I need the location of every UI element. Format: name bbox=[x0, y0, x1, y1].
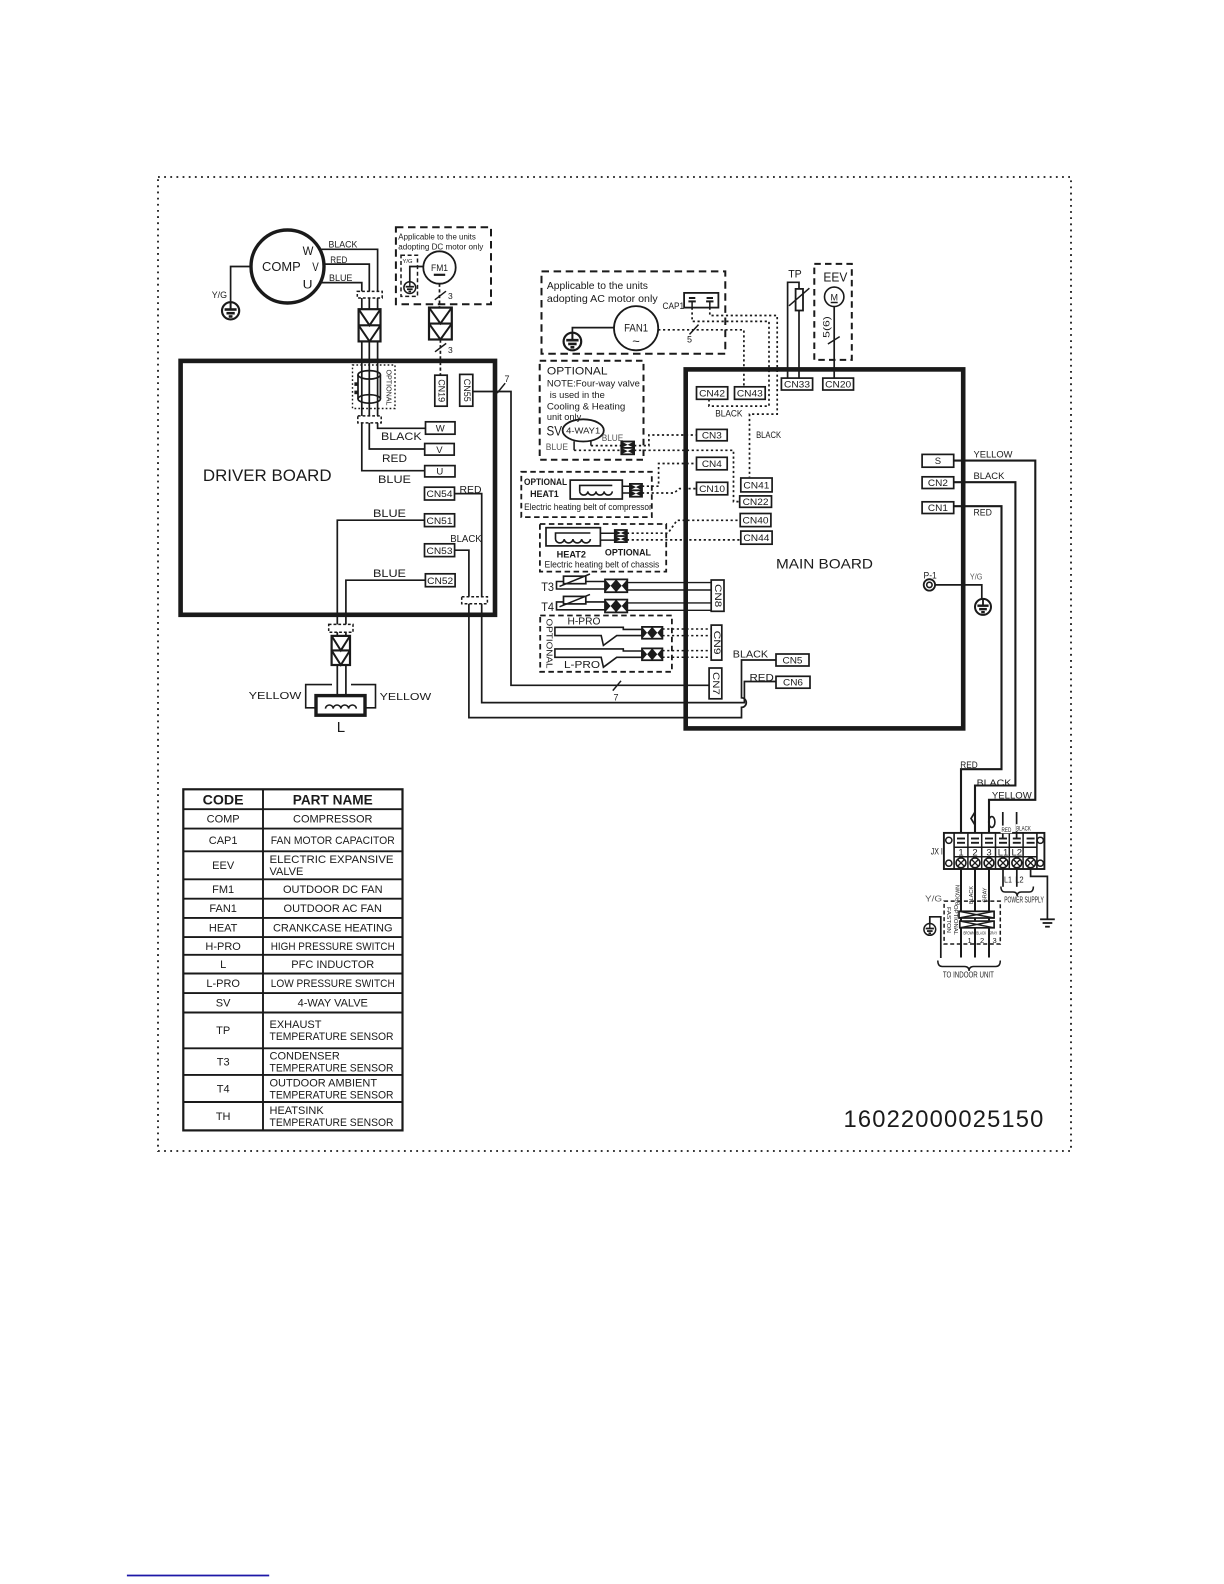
wire HEAT1 to CN4 bbox=[642, 464, 697, 487]
connector CN53 bbox=[425, 544, 455, 557]
svg-text:Applicable to the units: Applicable to the units bbox=[398, 233, 476, 242]
label JX I bbox=[931, 847, 943, 858]
svg-text:Y/G: Y/G bbox=[970, 572, 983, 582]
ground (FM1) bbox=[404, 282, 416, 294]
svg-text:TEMPERATURE SENSOR: TEMPERATURE SENSOR bbox=[270, 1062, 394, 1074]
svg-text:T3: T3 bbox=[541, 582, 554, 594]
svg-text:L1: L1 bbox=[1004, 874, 1012, 884]
svg-text:BLUE: BLUE bbox=[373, 508, 406, 520]
connector CN4 bbox=[697, 457, 728, 470]
svg-text:RED: RED bbox=[750, 673, 774, 684]
svg-text:ELECTRIC EXPANSIVE: ELECTRIC EXPANSIVE bbox=[270, 854, 394, 866]
svg-text:L1: L1 bbox=[998, 848, 1009, 859]
brace POWER SUPPLY bbox=[1001, 887, 1034, 897]
svg-text:SV: SV bbox=[547, 424, 563, 439]
fan motor capacitor CAP1 bbox=[684, 293, 718, 308]
wires L-PRO to CN9 bbox=[662, 651, 711, 658]
svg-text:BLUE: BLUE bbox=[546, 442, 568, 453]
svg-text:Y/G: Y/G bbox=[403, 259, 413, 265]
svg-text:OPTIONAL: OPTIONAL bbox=[384, 370, 391, 406]
ferrite bead on inductor leads bbox=[329, 624, 353, 632]
label RED bbox=[330, 255, 347, 266]
label P-1 bbox=[924, 571, 937, 582]
wire BLUE CN51 to inductor bbox=[337, 520, 424, 696]
label BLACK bbox=[381, 431, 422, 443]
loop on yellow wire bbox=[989, 817, 995, 828]
wire BROWN terminal 1 to indoor unit bbox=[960, 869, 962, 958]
fan motor FAN1 bbox=[614, 306, 658, 350]
svg-text:Applicable to the units: Applicable to the units bbox=[547, 281, 648, 292]
driver board bbox=[181, 361, 495, 615]
svg-text:L: L bbox=[337, 719, 345, 736]
wire EEV to CN20 bbox=[833, 307, 835, 379]
connector CN8 bbox=[711, 580, 724, 611]
wire (5 conductors) FAN1 to CN43 bbox=[658, 330, 744, 387]
svg-text:L: L bbox=[220, 959, 226, 971]
svg-text:CN33: CN33 bbox=[784, 379, 810, 390]
svg-text:3: 3 bbox=[448, 291, 453, 301]
svg-text:EXHAUST: EXHAUST bbox=[270, 1019, 322, 1031]
svg-text:CN41: CN41 bbox=[743, 480, 769, 491]
svg-text:CN53: CN53 bbox=[427, 546, 453, 557]
connector CN52 bbox=[425, 574, 455, 587]
svg-text:CN40: CN40 bbox=[743, 515, 769, 526]
ferrite bead over compressor leads bbox=[357, 291, 382, 298]
label MAIN BOARD bbox=[776, 556, 873, 572]
label L2 bbox=[1015, 874, 1024, 884]
svg-text:BLUE: BLUE bbox=[329, 273, 352, 284]
svg-text:OPTIONAL: OPTIONAL bbox=[547, 366, 608, 378]
svg-text:CN43: CN43 bbox=[737, 388, 763, 399]
svg-text:CN9: CN9 bbox=[712, 631, 722, 655]
connector CN2 bbox=[922, 477, 954, 489]
svg-text:CN42: CN42 bbox=[699, 388, 725, 399]
svg-text:PFC INDUCTOR: PFC INDUCTOR bbox=[291, 959, 374, 971]
node P-1 bbox=[924, 579, 935, 590]
ferrite bead below choke bbox=[358, 416, 381, 423]
note box optional: pressure switches bbox=[540, 616, 672, 672]
wire RED from COMP V to terminal V bbox=[324, 264, 424, 449]
svg-text:CN20: CN20 bbox=[825, 379, 851, 390]
label BLACK bbox=[974, 471, 1006, 482]
terminal W bbox=[426, 422, 456, 435]
svg-text:CN51: CN51 bbox=[427, 516, 453, 527]
svg-text:BLACK: BLACK bbox=[756, 430, 782, 441]
note box HEAT2 optional: electric heating belt of chassis bbox=[540, 524, 666, 572]
svg-text:COMP: COMP bbox=[262, 259, 301, 274]
connector (L-PRO leads) bbox=[642, 648, 662, 660]
note box: applicable to units adopting AC motor only bbox=[542, 271, 726, 353]
svg-text:TEMPERATURE SENSOR: TEMPERATURE SENSOR bbox=[270, 1117, 394, 1129]
label YELLOW bbox=[992, 791, 1032, 801]
svg-text:L-PRO: L-PRO bbox=[206, 978, 240, 990]
svg-text:BLACK: BLACK bbox=[450, 534, 482, 545]
connector CN54 bbox=[425, 487, 455, 500]
wire BLACK from COMP W to terminal W bbox=[320, 249, 425, 428]
svg-text:OPTIONAL: OPTIONAL bbox=[524, 477, 567, 488]
svg-text:TEMPERATURE SENSOR: TEMPERATURE SENSOR bbox=[270, 1089, 394, 1101]
connector CN10 bbox=[697, 482, 728, 495]
svg-text:CN6: CN6 bbox=[783, 678, 803, 689]
wires H-PRO to CN9 bbox=[662, 629, 711, 636]
svg-text:BLACK: BLACK bbox=[977, 778, 1012, 788]
svg-text:GRAY: GRAY bbox=[982, 887, 988, 902]
svg-text:1: 1 bbox=[958, 848, 963, 859]
svg-text:BLACK: BLACK bbox=[976, 931, 986, 936]
svg-text:RED: RED bbox=[974, 508, 993, 519]
labels BROWN BLACK GRAY bbox=[964, 931, 998, 936]
svg-text:SV: SV bbox=[216, 998, 231, 1010]
svg-text:CN22: CN22 bbox=[743, 497, 769, 508]
wire CAP1 to CN41 bbox=[710, 308, 777, 478]
label BROWN bbox=[955, 885, 961, 905]
label L bbox=[337, 719, 345, 736]
main board bbox=[686, 369, 964, 728]
svg-text:TH: TH bbox=[216, 1111, 231, 1123]
label CAP1 bbox=[663, 301, 685, 312]
label BLACK bbox=[329, 240, 358, 251]
svg-text:NOTE:Four-way valve: NOTE:Four-way valve bbox=[547, 378, 640, 389]
svg-text:3: 3 bbox=[986, 848, 991, 859]
svg-text:BLACK: BLACK bbox=[329, 240, 358, 251]
label RED bbox=[460, 485, 482, 496]
terminal U bbox=[425, 466, 455, 478]
svg-text:YELLOW: YELLOW bbox=[380, 692, 432, 703]
svg-text:U: U bbox=[436, 467, 443, 478]
svg-text:7: 7 bbox=[505, 374, 510, 384]
ground (indoor unit earth) bbox=[924, 924, 936, 936]
label BLACK bbox=[969, 886, 975, 904]
label BLUE bbox=[329, 273, 352, 284]
4-way valve coil 4-WAY1 bbox=[563, 419, 604, 450]
svg-text:BLACK: BLACK bbox=[1016, 825, 1031, 832]
connector CN42 bbox=[697, 387, 728, 400]
wire RED CN54 to CN6 bbox=[455, 494, 777, 703]
svg-text:3: 3 bbox=[448, 345, 453, 355]
svg-text:RED: RED bbox=[1002, 827, 1012, 834]
label RED bbox=[974, 508, 993, 519]
wire HEAT2 to CN44 bbox=[627, 539, 741, 541]
label EEV bbox=[823, 271, 848, 285]
label POWER SUPPLY bbox=[1004, 895, 1044, 904]
svg-text:LOW PRESSURE SWITCH: LOW PRESSURE SWITCH bbox=[271, 978, 395, 990]
label BLUE bbox=[373, 508, 406, 520]
svg-text:PART NAME: PART NAME bbox=[293, 792, 373, 807]
label T3 bbox=[541, 582, 554, 594]
connector CN40 bbox=[740, 514, 771, 527]
svg-text:BLUE: BLUE bbox=[373, 568, 406, 580]
svg-text:T4: T4 bbox=[541, 602, 554, 614]
svg-text:CN19: CN19 bbox=[437, 379, 447, 402]
label BLACK bbox=[733, 649, 769, 660]
svg-text:T3: T3 bbox=[217, 1056, 230, 1068]
svg-text:4-WAY1: 4-WAY1 bbox=[566, 426, 600, 436]
label 7 with slash bbox=[497, 374, 509, 393]
svg-text:L2: L2 bbox=[1015, 874, 1024, 884]
ground (power supply) bbox=[1040, 919, 1055, 926]
connector CN5 bbox=[776, 654, 809, 666]
svg-text:CN7: CN7 bbox=[711, 672, 721, 695]
wire BLACK terminal 2 to indoor unit bbox=[974, 869, 976, 958]
connector CN9 bbox=[711, 625, 722, 660]
svg-text:VALVE: VALVE bbox=[270, 866, 304, 878]
label YELLOW bbox=[380, 692, 432, 703]
wire L1 bbox=[1002, 869, 1004, 887]
label YELLOW bbox=[249, 691, 302, 702]
connector CN51 bbox=[425, 514, 455, 527]
label 3 with slash bbox=[435, 291, 453, 301]
svg-text:EEV: EEV bbox=[212, 860, 235, 872]
svg-text:is used in the: is used in the bbox=[550, 390, 605, 401]
wire BLUE SV to CN3 bbox=[591, 435, 697, 446]
jog on black wire bbox=[971, 812, 975, 825]
svg-text:CODE: CODE bbox=[203, 792, 244, 807]
connector CN19 bbox=[435, 375, 447, 406]
svg-text:5(6): 5(6) bbox=[822, 316, 832, 338]
legend table bbox=[183, 789, 402, 1130]
connector (H-PRO leads) bbox=[642, 627, 662, 639]
connector CN6 bbox=[776, 676, 810, 688]
svg-text:HEAT: HEAT bbox=[209, 922, 238, 934]
svg-text:CN10: CN10 bbox=[699, 484, 725, 495]
PFC choke (optional, dotted) bbox=[353, 365, 396, 409]
connector CN55 bbox=[460, 374, 473, 406]
connector (HEAT2 leads) bbox=[615, 530, 627, 542]
wire BLUE SV to CN22 bbox=[574, 450, 740, 501]
svg-text:~: ~ bbox=[632, 333, 640, 348]
stub L2 with label BLACK bbox=[1016, 812, 1032, 839]
wire (3 conductors) connector to CN19 bbox=[439, 340, 441, 376]
wire (3 conductors) FM1 to connector bbox=[439, 284, 441, 308]
wire Y/G to indoor unit bbox=[930, 917, 941, 958]
label Y/G bbox=[925, 894, 942, 904]
label Y/G bbox=[212, 290, 227, 301]
label 5 with slash bbox=[687, 325, 699, 345]
svg-text:EEV: EEV bbox=[823, 271, 848, 285]
label BLUE bbox=[373, 568, 406, 580]
compressor COMP bbox=[251, 230, 324, 303]
high pressure switch H-PRO bbox=[555, 627, 642, 645]
label DRIVER BOARD bbox=[203, 466, 332, 485]
svg-text:POWER SUPPLY: POWER SUPPLY bbox=[1004, 895, 1044, 904]
svg-text:CONDENSER: CONDENSER bbox=[270, 1050, 340, 1062]
svg-text:CN8: CN8 bbox=[713, 584, 723, 607]
svg-text:M: M bbox=[830, 292, 838, 302]
note box: applicable to units adopting DC motor only bbox=[396, 227, 491, 304]
svg-text:3: 3 bbox=[993, 936, 997, 945]
connector CN3 bbox=[697, 429, 728, 441]
svg-text:BROWN: BROWN bbox=[955, 885, 961, 905]
svg-text:V: V bbox=[436, 445, 443, 456]
svg-text:TP: TP bbox=[216, 1025, 230, 1037]
wire (7 conductors) CN55 to CN7 bbox=[473, 392, 709, 686]
faston connector bar 2 bbox=[960, 921, 994, 928]
label H-PRO bbox=[568, 617, 601, 628]
wire BLUE from COMP U to terminal U bbox=[321, 283, 425, 471]
connector CN33 bbox=[781, 378, 812, 390]
connector CN43 bbox=[735, 387, 766, 400]
crankcase heater HEAT1 bbox=[570, 480, 630, 499]
label L-PRO bbox=[564, 660, 600, 671]
svg-text:FAN MOTOR CAPACITOR: FAN MOTOR CAPACITOR bbox=[271, 835, 395, 847]
wires T3 to CN8 bbox=[627, 583, 711, 590]
svg-text:FAN1: FAN1 bbox=[209, 903, 237, 915]
svg-text:HIGH PRESSURE SWITCH: HIGH PRESSURE SWITCH bbox=[271, 941, 395, 953]
svg-text:CAP1: CAP1 bbox=[663, 301, 685, 312]
svg-text:2: 2 bbox=[972, 848, 977, 859]
wire CAP1 to CN42 bbox=[692, 308, 769, 407]
label RED bbox=[382, 453, 407, 465]
svg-text:BLACK: BLACK bbox=[715, 408, 743, 419]
connector CN44 bbox=[741, 531, 772, 544]
slash on EEV wire bbox=[828, 337, 840, 344]
connector CN22 bbox=[740, 496, 772, 508]
svg-text:Cooling & Heating: Cooling & Heating bbox=[547, 401, 625, 412]
chassis heater HEAT2 bbox=[546, 528, 615, 546]
svg-text:W: W bbox=[436, 424, 445, 435]
svg-text:Y/G: Y/G bbox=[925, 894, 942, 904]
svg-text:U: U bbox=[303, 277, 313, 291]
svg-text:Y/G: Y/G bbox=[212, 290, 227, 301]
wires T4 to CN8 bbox=[627, 603, 711, 610]
svg-text:RED: RED bbox=[382, 453, 407, 465]
svg-text:YELLOW: YELLOW bbox=[992, 791, 1032, 801]
label BLACK bbox=[977, 778, 1012, 788]
faston connector bar 1 bbox=[959, 911, 994, 918]
svg-text:CN4: CN4 bbox=[702, 459, 722, 470]
label BLACK bbox=[715, 408, 743, 419]
connector (T3 leads) bbox=[605, 579, 627, 592]
svg-text:adopting DC motor only: adopting DC motor only bbox=[398, 243, 483, 252]
svg-text:YELLOW: YELLOW bbox=[249, 691, 302, 702]
svg-text:2: 2 bbox=[980, 936, 984, 945]
wire BLUE CN52 to inductor bbox=[346, 580, 426, 696]
svg-text:TP: TP bbox=[788, 269, 802, 281]
svg-text:MAIN BOARD: MAIN BOARD bbox=[776, 556, 873, 572]
svg-text:COMP: COMP bbox=[207, 814, 240, 826]
svg-text:CN1: CN1 bbox=[928, 503, 948, 514]
wire BLACK CN53 to CN5 bbox=[455, 550, 776, 717]
connector S bbox=[922, 454, 954, 467]
label 5(6) bbox=[822, 316, 832, 338]
connector (HEAT1 leads) bbox=[630, 484, 642, 497]
svg-text:RED: RED bbox=[460, 485, 482, 496]
svg-text:TEMPERATURE SENSOR: TEMPERATURE SENSOR bbox=[270, 1031, 394, 1043]
svg-text:adopting AC motor only: adopting AC motor only bbox=[547, 294, 658, 305]
connector (4-way valve leads) bbox=[621, 442, 634, 455]
svg-text:HEATSINK: HEATSINK bbox=[270, 1105, 325, 1117]
svg-text:L2: L2 bbox=[1012, 848, 1023, 859]
wire BLACK CN2 to terminal 2 bbox=[954, 482, 1016, 838]
note box: faston optional bbox=[944, 901, 1000, 944]
low pressure switch L-PRO bbox=[555, 649, 642, 667]
wire Y/G from COMP to ground bbox=[231, 267, 251, 303]
svg-text:OUTDOOR AMBIENT: OUTDOOR AMBIENT bbox=[270, 1077, 378, 1089]
brace TO INDOOR UNIT bbox=[938, 961, 1001, 972]
svg-text:CN54: CN54 bbox=[427, 489, 453, 500]
wire YELLOW S to terminal 3 bbox=[954, 461, 1036, 839]
label BLUE bbox=[378, 474, 411, 486]
fan motor FM1 bbox=[423, 251, 455, 283]
label BLUE bbox=[546, 442, 568, 453]
svg-text:FASTON: FASTON bbox=[945, 907, 951, 933]
wire Y/G P-1 to ground bbox=[935, 585, 982, 599]
svg-text:OUTDOOR AC FAN: OUTDOOR AC FAN bbox=[284, 903, 382, 915]
svg-text:RED: RED bbox=[330, 255, 347, 266]
exhaust temperature sensor TP bbox=[788, 282, 810, 378]
ground (P-1) bbox=[975, 599, 991, 615]
wire L2 bbox=[1016, 869, 1018, 887]
ferrite bead on CN53/CN54 leads bbox=[462, 597, 488, 604]
svg-text:CN5: CN5 bbox=[783, 655, 803, 666]
label TO INDOOR UNIT bbox=[943, 970, 994, 980]
svg-text:H-PRO: H-PRO bbox=[205, 941, 241, 953]
svg-text:CN52: CN52 bbox=[427, 576, 453, 587]
svg-text:JX I: JX I bbox=[931, 847, 943, 858]
connector CN20 bbox=[823, 378, 854, 390]
label BLUE bbox=[602, 433, 624, 444]
svg-text:DRIVER BOARD: DRIVER BOARD bbox=[203, 466, 332, 485]
svg-text:Electric heating belt of chass: Electric heating belt of chassis bbox=[545, 560, 660, 571]
connector CN7 bbox=[709, 668, 722, 699]
outdoor ambient temperature sensor T4 bbox=[557, 594, 606, 609]
connector CN41 bbox=[741, 478, 772, 492]
electric expansive valve EEV (dashed box) bbox=[814, 264, 852, 360]
svg-text:Electric heating belt of compr: Electric heating belt of compressor bbox=[524, 502, 652, 513]
label SV bbox=[547, 424, 563, 439]
label Y/G bbox=[403, 259, 413, 265]
svg-text:T4: T4 bbox=[217, 1083, 230, 1095]
svg-text:V: V bbox=[312, 260, 319, 274]
svg-text:BLUE: BLUE bbox=[378, 474, 411, 486]
svg-text:5: 5 bbox=[687, 334, 692, 344]
terminal block JXI bbox=[944, 833, 1045, 869]
footer rule bbox=[127, 1575, 269, 1577]
label RED bbox=[960, 760, 978, 770]
label T4 bbox=[541, 602, 554, 614]
EEV motor M bbox=[825, 287, 844, 306]
svg-text:OPTIONAL: OPTIONAL bbox=[544, 619, 553, 670]
svg-text:RED: RED bbox=[960, 760, 978, 770]
svg-text:L-PRO: L-PRO bbox=[564, 660, 600, 671]
connector (T4 leads) bbox=[605, 600, 627, 613]
wire GRAY terminal 3 to indoor unit bbox=[988, 869, 990, 958]
label 7 with slash bbox=[613, 681, 621, 703]
connector (compressor harness) bbox=[359, 309, 381, 341]
svg-text:FM1: FM1 bbox=[212, 884, 234, 896]
svg-text:S: S bbox=[935, 456, 941, 467]
svg-text:CN55: CN55 bbox=[462, 379, 472, 402]
svg-text:FM1: FM1 bbox=[431, 263, 448, 274]
svg-text:BLACK: BLACK bbox=[381, 431, 422, 443]
dashed box around FM1 ground (optional) bbox=[401, 255, 418, 296]
connector CN1 bbox=[922, 502, 954, 514]
svg-text:1: 1 bbox=[968, 936, 972, 945]
label BLACK bbox=[756, 430, 782, 441]
wire RED CN1 to terminal 1 bbox=[954, 506, 1002, 838]
condenser temperature sensor T3 bbox=[557, 574, 606, 589]
label L1 bbox=[1004, 874, 1012, 884]
label BLACK bbox=[450, 534, 482, 545]
connector (inductor leads) bbox=[332, 636, 350, 665]
svg-text:BLACK: BLACK bbox=[733, 649, 769, 660]
svg-text:BLUE: BLUE bbox=[602, 433, 624, 444]
labels 1 2 3 bbox=[968, 936, 997, 945]
label GRAY bbox=[982, 887, 988, 902]
wire earth from terminal block bbox=[1031, 869, 1048, 919]
stub L1 with label RED bbox=[1001, 812, 1013, 839]
svg-text:COMPRESSOR: COMPRESSOR bbox=[293, 814, 373, 826]
